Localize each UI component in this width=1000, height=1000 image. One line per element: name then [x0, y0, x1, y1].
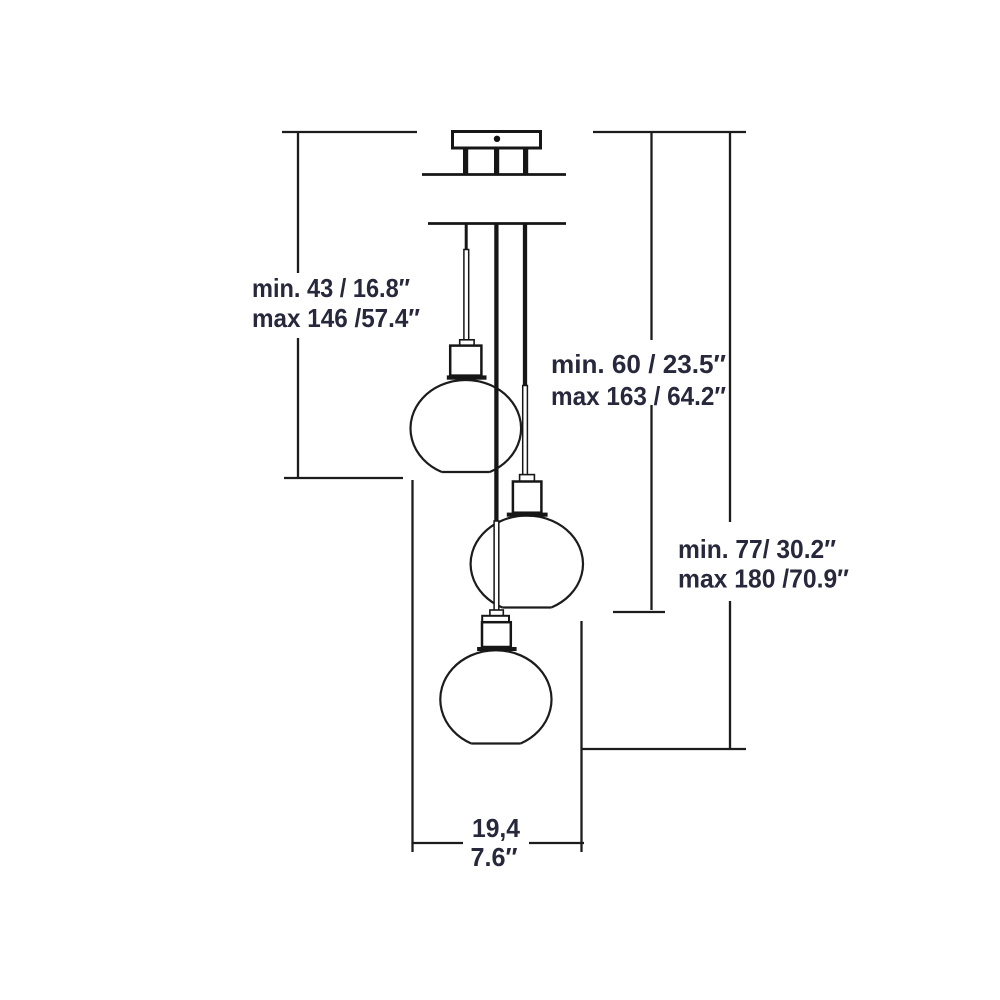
svg-text:min. 60 / 23.5″: min. 60 / 23.5″ [551, 349, 726, 379]
dimension line left vertical lower segment [297, 338, 299, 477]
dimension tick top-right [593, 131, 746, 133]
ceiling plate line lower [428, 222, 566, 225]
socket body 1 [450, 346, 481, 376]
socket body 2 [513, 482, 542, 513]
width dimension tick left [412, 842, 463, 844]
globe 3 (bottom pendant sphere) [440, 650, 551, 743]
dimension line left vertical upper segment (min 43 / max 146) [297, 132, 299, 273]
suspension cable 1 (solid, to top globe) [465, 223, 468, 250]
canopy post 2 [494, 148, 499, 175]
dimension line middle vertical lower segment [650, 405, 652, 610]
socket flange 1 [447, 375, 487, 379]
canopy post 3 [523, 148, 528, 175]
svg-text:max 180 /70.9″: max 180 /70.9″ [678, 564, 849, 594]
ceiling canopy [453, 132, 541, 149]
dimension line right vertical upper segment (min 77 / max 180) [729, 132, 731, 522]
width dimension right vertical [580, 621, 582, 852]
suspension cable 3 (solid, to middle globe) [523, 223, 527, 386]
svg-text:min. 43 / 16.8″: min. 43 / 16.8″ [252, 273, 410, 303]
globe 2 (middle pendant sphere) [471, 516, 583, 608]
dimension tick bottom-right [581, 748, 746, 750]
suspension cable 2 (solid, to bottom globe) [494, 223, 498, 522]
svg-text:19,4: 19,4 [472, 813, 521, 843]
ceiling plate line upper [422, 173, 566, 176]
socket body 3 [482, 622, 511, 647]
svg-text:7.6″: 7.6″ [471, 842, 518, 872]
suspension rod/stem 2 (hollow) [523, 386, 528, 478]
globe 1 (top pendant sphere) [411, 380, 522, 472]
svg-text:min. 77/ 30.2″: min. 77/ 30.2″ [678, 534, 836, 564]
suspension rod/stem 3 (hollow) [494, 521, 499, 611]
width dimension tick right [529, 842, 584, 844]
socket collar 2 [520, 475, 535, 482]
dimension tick bottom-left [284, 477, 403, 479]
dimension line middle vertical upper segment (min 60 / max 163) [650, 132, 652, 340]
svg-text:max 146 /57.4″: max 146 /57.4″ [252, 303, 420, 333]
canopy post 1 [463, 148, 468, 175]
canopy center screw dot [494, 136, 500, 142]
socket flange 2 [507, 513, 548, 517]
socket flange 3 [477, 647, 516, 651]
socket collar 3 small [490, 610, 503, 616]
svg-text:max 163 / 64.2″: max 163 / 64.2″ [551, 381, 726, 411]
socket collar 3 ring [482, 616, 509, 622]
suspension rod/stem 1 (hollow) [464, 250, 469, 341]
dimension tick top-left [282, 131, 417, 133]
width dimension left vertical [411, 480, 413, 852]
socket collar 1 [460, 340, 474, 346]
dimension line right vertical lower segment [729, 601, 731, 750]
dimension tick middle bottom [613, 611, 665, 613]
